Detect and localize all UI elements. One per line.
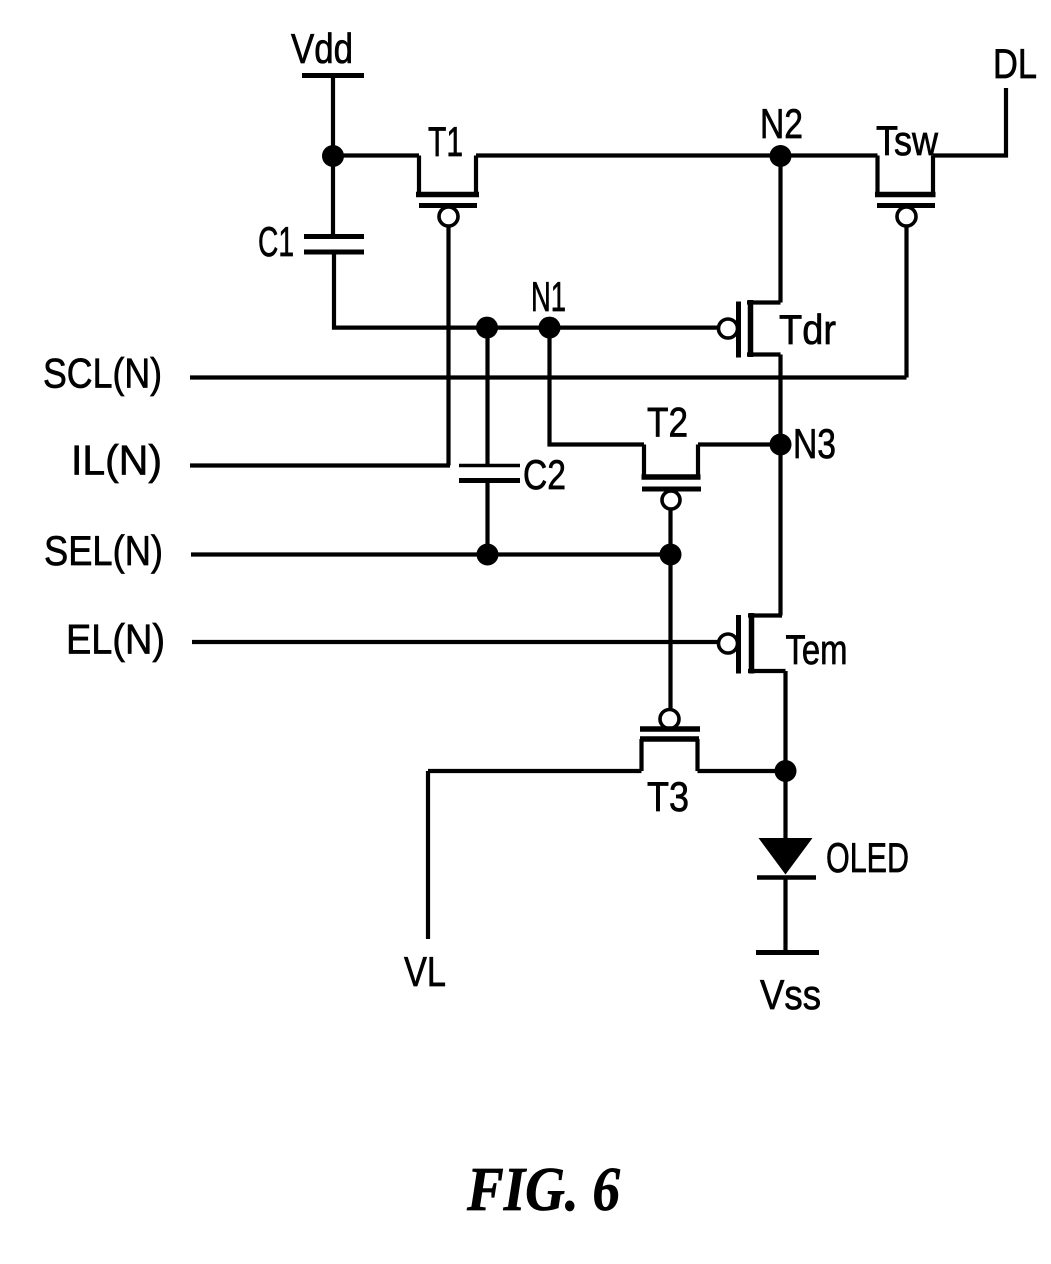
svg-text:N1: N1 bbox=[531, 273, 566, 320]
svg-text:DL: DL bbox=[993, 40, 1037, 87]
svg-text:C2: C2 bbox=[523, 451, 566, 498]
wire T2 drain to N3 bbox=[698, 442, 781, 446]
svg-text:N2: N2 bbox=[760, 100, 803, 147]
wire Vdd node to T1 source bbox=[333, 153, 419, 157]
svg-text:Tdr: Tdr bbox=[779, 306, 836, 353]
svg-text:Tsw: Tsw bbox=[876, 117, 939, 164]
svg-text:EL(N): EL(N) bbox=[66, 616, 165, 663]
wire T3 right leg to OLED node bbox=[698, 769, 786, 773]
capacitor C2 bbox=[459, 451, 566, 498]
svg-text:Vdd: Vdd bbox=[291, 25, 353, 72]
net IL(N) bbox=[71, 437, 450, 484]
junction SEL(N)/T2 gate/T3 gate bbox=[660, 544, 682, 566]
power terminal Vdd bbox=[291, 25, 364, 76]
wire N2 down to Tdr drain bbox=[778, 156, 782, 303]
junction node Vdd/C1/T1 bbox=[322, 145, 344, 167]
wire Tem source down to OLED node bbox=[783, 671, 787, 771]
wire Tsw drain to DL corner bbox=[933, 88, 1006, 156]
transistor Tsw bbox=[875, 117, 939, 226]
kink wire Tem top stub to N3 column bbox=[781, 613, 783, 617]
svg-text:Vss: Vss bbox=[760, 971, 821, 1018]
wire C1 bottom plate down and right along N1 net bbox=[334, 252, 719, 328]
power terminal Vss bbox=[756, 953, 821, 1019]
net SCL(N) bbox=[43, 350, 907, 397]
svg-text:FIG. 6: FIG. 6 bbox=[466, 1156, 620, 1224]
wire T1 gate stem down to IL(N) bbox=[446, 226, 450, 466]
net EL(N) bbox=[66, 616, 718, 663]
junction T3/Tem/OLED bbox=[775, 760, 797, 782]
svg-text:SCL(N): SCL(N) bbox=[43, 350, 162, 397]
wire VL rail bbox=[426, 771, 430, 939]
node N3 bbox=[770, 420, 837, 467]
wire T3 left leg to VL rail bbox=[428, 769, 642, 773]
node N2 bbox=[760, 100, 803, 167]
svg-text:C1: C1 bbox=[258, 218, 294, 265]
transistor T1 bbox=[416, 118, 479, 226]
wire C2 bottom plate down to SEL(N) bbox=[485, 481, 489, 555]
node N1 bbox=[531, 273, 566, 339]
wire N3 down to Tem drain bbox=[778, 445, 782, 616]
wire Vdd stem down to C1 top plate bbox=[331, 78, 335, 237]
wire OLED cathode down to Vss bbox=[783, 878, 787, 952]
wire Tdr source down to N3 bbox=[778, 355, 782, 445]
svg-text:OLED: OLED bbox=[826, 834, 909, 881]
wire T1 drain to N2 bbox=[476, 153, 781, 157]
svg-text:T1: T1 bbox=[428, 118, 463, 165]
wire SEL junction down to T3 gate bbox=[668, 555, 672, 710]
transistor Tem bbox=[719, 613, 848, 674]
wire Tsw gate stem down to SCL(N) bbox=[904, 226, 908, 378]
transistor T3 bbox=[640, 710, 700, 821]
net SEL(N) bbox=[44, 527, 671, 574]
svg-text:N3: N3 bbox=[793, 420, 836, 467]
wire C2 top plate up to N1 net bbox=[485, 328, 489, 466]
capacitor C1 bbox=[258, 218, 364, 265]
svg-text:IL(N): IL(N) bbox=[71, 437, 162, 484]
svg-text:SEL(N): SEL(N) bbox=[44, 527, 163, 574]
svg-text:VL: VL bbox=[404, 948, 446, 995]
transistor T2 bbox=[642, 399, 702, 510]
svg-text:T2: T2 bbox=[647, 399, 688, 446]
junction N1 net / C2 top bbox=[476, 317, 498, 339]
transistor Tdr bbox=[719, 300, 837, 358]
wire T2 gate stem down to SEL(N) bbox=[668, 509, 672, 555]
svg-text:Tem: Tem bbox=[786, 626, 848, 673]
diode OLED bbox=[757, 771, 909, 881]
junction SEL(N)/C2 bottom bbox=[477, 544, 499, 566]
wire N2 to Tsw bbox=[781, 153, 878, 157]
wire N1 down and right to T2 source bbox=[550, 328, 645, 445]
svg-text:T3: T3 bbox=[647, 773, 689, 820]
